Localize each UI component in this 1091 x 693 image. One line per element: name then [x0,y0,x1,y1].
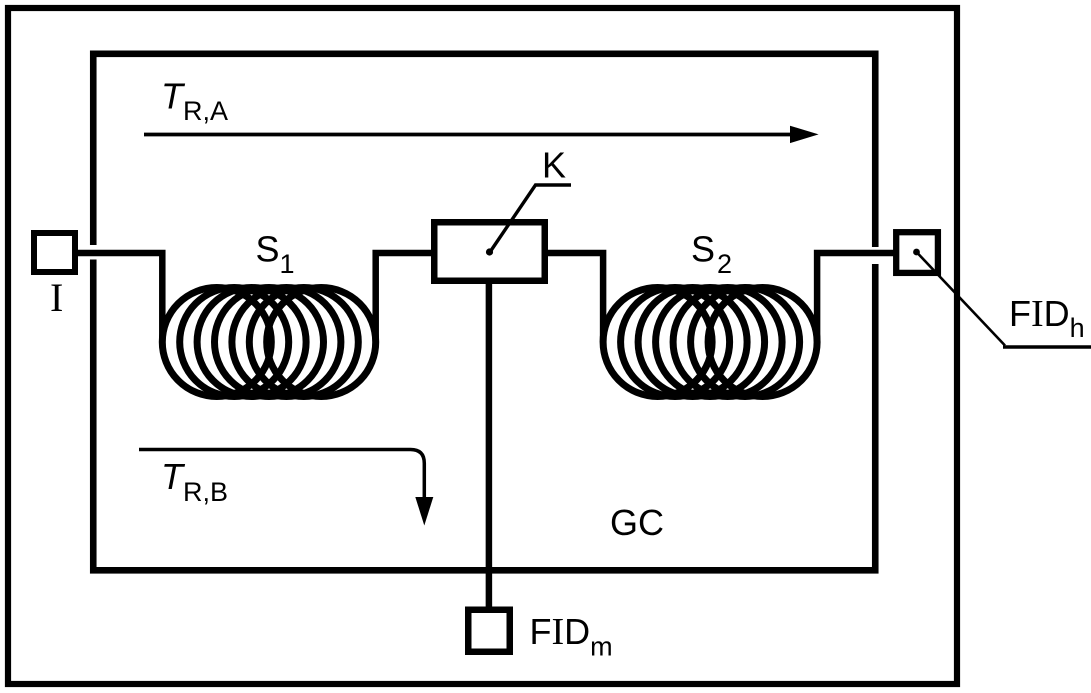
svg-text:R,A: R,A [183,96,228,126]
svg-text:GC: GC [610,502,664,543]
svg-text:S2: S2 [691,229,732,280]
FIDh pointer dot and diagonal [913,249,920,256]
wire: injector I to column S1 [76,253,162,342]
FIDh underline [1003,345,1091,349]
wire: valve K down to detector FIDm [486,282,493,610]
gap in oven box right edge at detector wire crossing [870,247,881,264]
temperature program arrow TRA [144,133,792,137]
GC oven box [93,54,875,571]
gap in oven box left edge at injector wire crossing [88,245,99,260]
valve box K [434,222,545,281]
temperature program arrow TRB [139,450,424,501]
detector square FIDh [896,232,938,273]
wire: column S1 to valve K [376,253,433,342]
detector square FIDm [468,610,510,652]
injector square I [34,233,75,272]
svg-text:R,B: R,B [183,477,228,507]
wire: valve K to column S2 [546,253,603,342]
svg-text:S1: S1 [256,229,295,280]
svg-text:I: I [50,275,63,320]
valve pointer line with dot [490,185,571,252]
svg-text:FIDh: FIDh [1009,293,1085,343]
svg-text:FIDm: FIDm [530,611,613,662]
svg-text:K: K [542,145,566,186]
column S1 coil [162,288,375,397]
wire: column S2 to detector FIDh [817,253,895,342]
column S2 coil [603,288,817,397]
